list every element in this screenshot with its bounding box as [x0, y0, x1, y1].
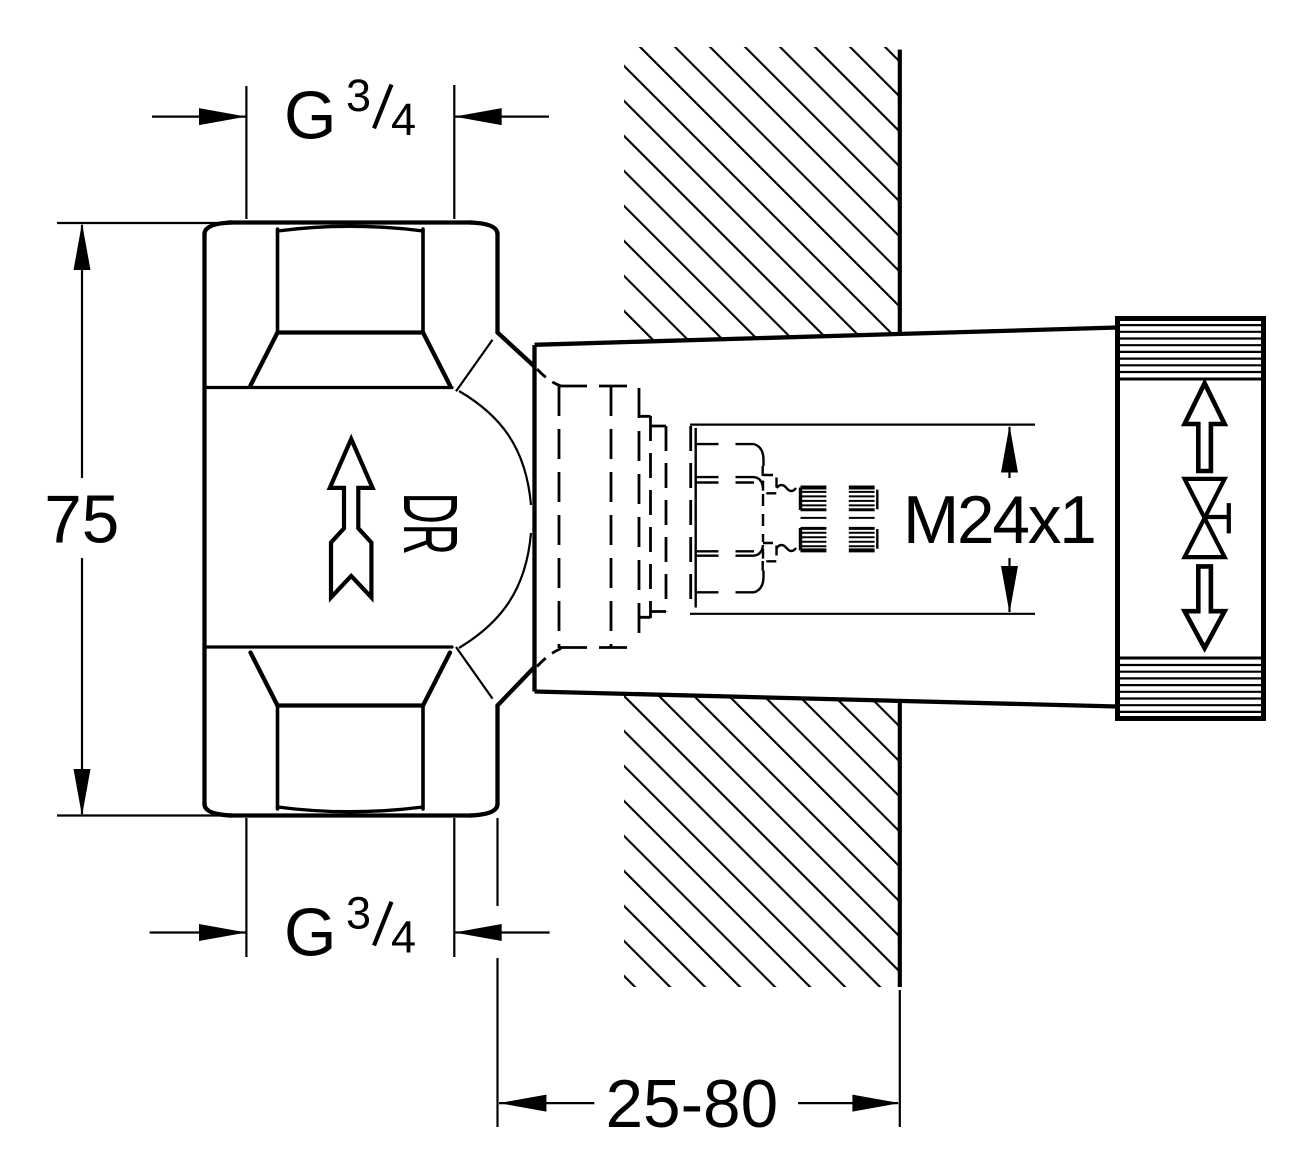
svg-text:G: G	[284, 896, 337, 971]
thread end cap lower	[876, 529, 878, 549]
dimension M24x1 extension lines	[690, 425, 1035, 614]
hidden vertical x666	[665, 426, 668, 612]
hidden vertical x690 (M24 thread)	[689, 426, 692, 611]
hex nut top: chamfer left	[251, 333, 278, 386]
valve body left edge	[202, 234, 206, 804]
hex nut bottom: flat	[228, 813, 472, 817]
svg-text:G: G	[284, 79, 337, 154]
thread block B top edge	[849, 486, 875, 490]
hex nut top: flat	[228, 220, 472, 224]
hex nut top: corner arcs	[205, 223, 498, 235]
thread block C bottom edge	[801, 548, 827, 552]
dimension G 3/4 top: extension lines	[246, 85, 454, 219]
thread end cap upper	[876, 490, 878, 510]
cartridge hidden outline (dashed)	[537, 369, 691, 667]
thread root lines	[801, 517, 875, 519]
cartridge stem solid internals	[695, 428, 796, 608]
cap symbol: open arrow up	[1185, 383, 1225, 471]
hidden corner arc bottom	[537, 649, 561, 667]
hidden corner arc top	[537, 369, 561, 386]
cone sleeve outline	[535, 328, 1118, 707]
hex nut bottom: inner flat	[278, 703, 424, 707]
dimension 25-80 arrowhead right	[852, 1095, 899, 1112]
thread block D bottom edge	[849, 548, 875, 552]
hex nut top: facet lines	[278, 229, 424, 333]
hex nut top: inner flat	[278, 330, 424, 334]
dimension M24x1 line	[1008, 427, 1010, 612]
hidden bottom edge	[559, 646, 639, 649]
svg-text:4: 4	[391, 911, 416, 962]
thread block A left edge	[799, 488, 802, 511]
spindle shaft dashed	[762, 494, 764, 542]
dimension text G 3/4 bottom	[284, 887, 416, 970]
dimension 75 extension line bottom	[57, 814, 242, 816]
protective cap outline	[1118, 319, 1264, 719]
collar end arc upper	[754, 477, 763, 488]
hex nut bottom: facet lines	[278, 706, 424, 810]
transition slant to cone top	[498, 333, 535, 367]
dimension G 3/4 bottom: left arrowhead	[199, 924, 246, 941]
dimension G 3/4 bottom: arrow lines	[150, 931, 550, 933]
body bottom joint line	[205, 645, 452, 648]
dimension G 3/4 top: arrow lines	[152, 115, 549, 117]
dimension G 3/4 top: right arrowhead	[454, 108, 501, 125]
collar lines upper	[695, 477, 754, 482]
thin arc bottom	[459, 533, 531, 648]
dimension 75 arrowhead down	[74, 769, 91, 816]
cap symbol: open arrow down	[1185, 566, 1225, 648]
transition slant to cone bottom	[498, 667, 535, 706]
thread face vertical x695	[695, 428, 697, 608]
cap knurl band bottom	[1118, 658, 1263, 712]
dimension text G 3/4 top	[284, 70, 416, 154]
hex nut bottom: corner arcs	[205, 804, 498, 816]
flow direction arrow	[330, 439, 373, 597]
collar end arc lower	[754, 545, 763, 556]
hex nut bottom: chamfer right	[423, 653, 450, 706]
hex nut bottom: chamfer left	[251, 653, 278, 706]
hidden step edges 1	[639, 416, 651, 617]
spindle tip dashed box upper	[763, 475, 777, 493]
thread block B stripes	[849, 492, 875, 506]
thread block C top edge	[801, 527, 827, 530]
break squiggle upper	[777, 485, 797, 491]
svg-text:25-80: 25-80	[606, 1067, 779, 1142]
valve body right edge upper	[495, 234, 499, 333]
cone left edge	[532, 345, 536, 692]
wall hatching lower section	[624, 694, 900, 987]
body top joint line	[205, 386, 452, 389]
hidden vertical x650	[649, 416, 652, 618]
dimension M24x1 arrowhead up	[1001, 426, 1018, 473]
spindle edge upper	[762, 466, 764, 476]
hex nut top: chamfer right	[423, 333, 450, 386]
svg-text:75: 75	[44, 483, 119, 558]
hex nut top: face arc	[278, 226, 424, 231]
svg-text:M24x1: M24x1	[903, 483, 1095, 558]
thread block A top edge	[801, 486, 827, 490]
hidden vertical x559	[558, 386, 561, 648]
dimension G 3/4 top: left arrowhead	[199, 108, 246, 125]
thin slant bottom	[456, 647, 493, 699]
thread block D top edge	[849, 527, 875, 530]
hidden top edge	[559, 385, 639, 388]
hidden step edges 2	[651, 426, 667, 612]
bell top edge	[697, 444, 764, 466]
cap symbol: valve bowtie	[1185, 479, 1225, 557]
thin chamfer cross lines at cone transition	[456, 340, 531, 699]
dimension 25-80 arrow lines	[499, 1102, 898, 1104]
break squiggle lower	[777, 545, 797, 551]
dimension 75 extension line top	[57, 222, 242, 224]
wall outer surface edge (right)	[898, 50, 902, 987]
cone top edge	[535, 328, 1118, 345]
spindle tip dashed box lower	[763, 543, 777, 561]
svg-text:4: 4	[391, 94, 416, 145]
cap knurl band top	[1118, 325, 1263, 379]
svg-text:3: 3	[346, 887, 371, 938]
thin slant top	[456, 340, 493, 392]
thread block A stripes	[801, 492, 827, 506]
dimension M24x1 arrowhead down	[1001, 566, 1018, 613]
dimension 25-80 arrowhead left	[499, 1095, 546, 1112]
svg-text:3: 3	[346, 70, 371, 121]
dimension 25-80 extension line right	[899, 990, 901, 1127]
svg-text:DR: DR	[387, 493, 472, 555]
spindle edge lower	[762, 561, 764, 571]
cap symbol: stem with handle	[1205, 503, 1229, 533]
bell bottom edge	[697, 571, 764, 593]
threaded spindle blocks	[801, 488, 878, 551]
dimension 75 line	[81, 225, 83, 814]
wall hatching upper section	[624, 47, 900, 342]
dimension G 3/4 bottom: extension lines	[246, 818, 454, 957]
collar lines lower	[695, 551, 754, 555]
thin arc top	[459, 391, 531, 505]
cone bottom edge	[535, 692, 1118, 707]
thread block C stripes	[801, 533, 827, 547]
dimension 75 arrowhead up	[74, 223, 91, 270]
hex nut bottom: face arc	[278, 807, 424, 812]
hidden vertical x611	[610, 386, 613, 648]
dimension G 3/4 bottom: right arrowhead	[454, 924, 501, 941]
thread block B bottom edge	[849, 508, 875, 511]
valve body right edge lower	[495, 706, 499, 805]
valve body outline	[205, 223, 535, 816]
thread block D stripes	[849, 533, 875, 547]
thread block A bottom edge	[801, 508, 827, 511]
dimension 25-80 extension line left	[496, 818, 498, 1127]
thread block C left edge	[799, 528, 802, 550]
hidden vertical x639	[638, 388, 641, 645]
